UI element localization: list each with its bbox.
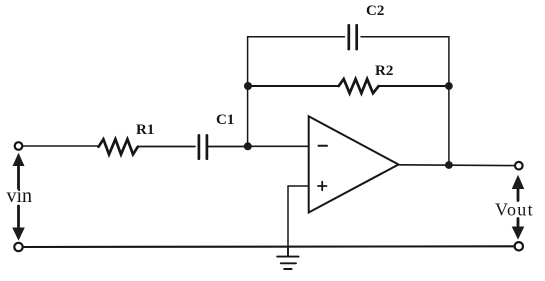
wire bottom rail xyxy=(23,245,515,248)
wire R1 to C1 xyxy=(138,146,195,148)
resistor R1 xyxy=(99,139,138,154)
terminal input bottom xyxy=(14,243,22,251)
wire feedback right vertical xyxy=(448,37,450,166)
resistor R2 xyxy=(339,79,379,93)
wire R2 branch right xyxy=(379,85,449,87)
svg-text:C2: C2 xyxy=(366,3,384,19)
junction dot output node xyxy=(445,161,453,169)
wire node A up to feedback xyxy=(247,37,249,147)
arrow vin up xyxy=(17,166,20,189)
svg-text:R1: R1 xyxy=(136,122,154,138)
node A junction dot xyxy=(244,142,252,150)
arrow vout up xyxy=(517,187,520,201)
op-amp minus sign xyxy=(319,145,328,147)
wire R2 branch left xyxy=(248,85,339,87)
wire C1 to node A xyxy=(207,146,248,148)
svg-text:R2: R2 xyxy=(375,63,393,79)
svg-text:vin: vin xyxy=(7,185,33,207)
terminal output top xyxy=(515,162,523,170)
junction dot output / R2 xyxy=(445,82,453,90)
terminal output bottom xyxy=(515,242,523,250)
wire top C2 branch xyxy=(248,36,449,38)
op-amp plus sign xyxy=(318,182,327,191)
capacitor C1 xyxy=(199,135,207,158)
capacitor C2 xyxy=(349,25,357,49)
svg-text:C1: C1 xyxy=(216,112,234,128)
arrow vout down xyxy=(517,219,520,229)
terminal input top xyxy=(15,142,23,150)
wire node A to op-amp xyxy=(248,145,309,147)
junction dot node A / R2 xyxy=(244,82,252,90)
wire input to R1 xyxy=(23,145,99,147)
wire plus input xyxy=(288,186,309,246)
svg-text:Vout: Vout xyxy=(495,200,534,220)
ground xyxy=(277,246,298,269)
wire op-amp output xyxy=(399,164,515,167)
op-amp U1 xyxy=(309,116,399,212)
arrow vin down xyxy=(17,206,20,229)
